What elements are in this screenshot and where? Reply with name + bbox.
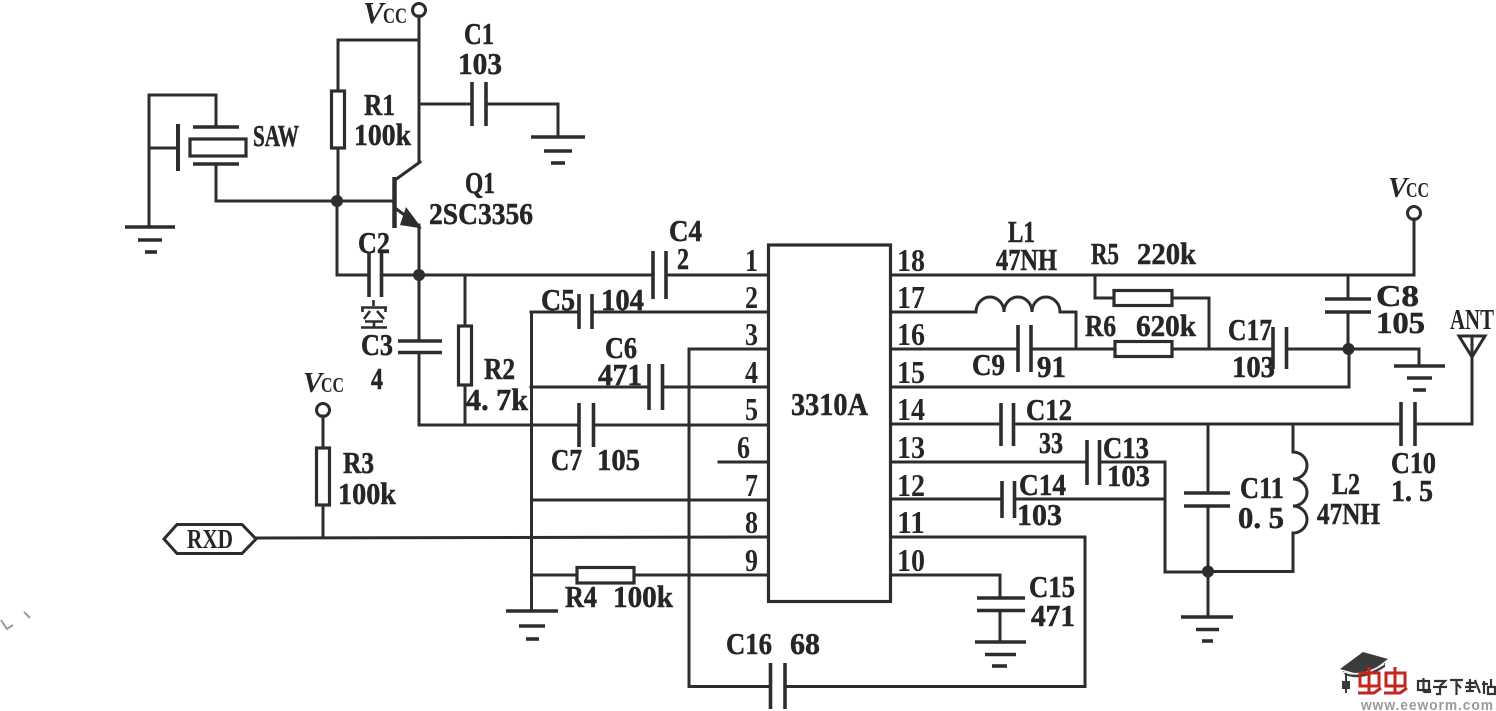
svg-text:100k: 100k (354, 117, 412, 152)
svg-text:103: 103 (1232, 349, 1275, 384)
wire pin2 row with capacitor C5 (531, 294, 768, 329)
svg-text:91: 91 (1037, 349, 1066, 384)
resistor R6 (1085, 308, 1197, 357)
resistor R5 (1091, 236, 1209, 349)
wire RXD to pin 8 (256, 537, 768, 538)
wire C1 to ground (486, 104, 558, 137)
svg-text:C7: C7 (551, 442, 582, 477)
resistor R1 (332, 87, 412, 152)
wire R6 to C17 (1172, 348, 1273, 351)
inductor L1 on pin17 row (891, 214, 1076, 312)
svg-text:47NH: 47NH (996, 242, 1057, 277)
wire bottom C16 row left (689, 685, 770, 688)
svg-text:R6: R6 (1085, 308, 1116, 343)
svg-text:C9: C9 (972, 347, 1005, 382)
wire pin5 row with capacitor C7 (419, 403, 768, 447)
wire pin13 row to C13 (891, 461, 1087, 464)
capacitor C5 labels (541, 282, 644, 317)
capacitor C16 (726, 626, 820, 709)
wire pin10 row to C15 (891, 575, 1000, 598)
wire base junction down to C2 (336, 201, 339, 275)
svg-text:4: 4 (745, 354, 758, 390)
wire VCC to R3 (322, 416, 325, 448)
wire VCC right down (1413, 219, 1416, 275)
wire R1 bottom to base wire (337, 148, 340, 201)
capacitor C10 (1391, 402, 1436, 508)
wire ground bus vertical (530, 312, 533, 611)
wire pin6 stub (719, 461, 768, 464)
resistor R3 (317, 445, 397, 511)
power VCC top terminal (363, 0, 426, 30)
wire pin3 vertical to C16 (689, 349, 768, 687)
wire emitter down (418, 225, 421, 275)
wire pin15 row (891, 349, 1349, 387)
svg-text:3: 3 (745, 316, 758, 352)
svg-text:7: 7 (745, 467, 758, 503)
svg-text:8: 8 (745, 504, 758, 540)
capacitor C2 (337, 225, 419, 297)
svg-text:C2: C2 (358, 225, 390, 260)
capacitor C4 (653, 213, 702, 299)
svg-text:105: 105 (597, 442, 640, 477)
svg-text:13: 13 (897, 429, 925, 465)
wire pin11 row to right edge box (891, 537, 1085, 687)
svg-text:17: 17 (897, 279, 925, 315)
capacitor C9 on pin16 row (891, 325, 1066, 384)
transistor Q1 (395, 162, 534, 231)
svg-text:C17: C17 (1228, 312, 1272, 347)
watermark text 虫虫 (drawn) (1358, 667, 1407, 693)
ground C1 (531, 137, 585, 163)
svg-text:CC: CC (321, 373, 344, 397)
inductor L2 (1293, 424, 1380, 572)
ground bottom right (1181, 617, 1233, 641)
connector RXD (164, 524, 256, 554)
svg-text:104: 104 (601, 282, 644, 317)
svg-text:100k: 100k (613, 579, 674, 614)
capacitor C6 labels (598, 330, 642, 392)
capacitor C13 (1087, 430, 1150, 493)
wire pin1 row (emitter to C4) (419, 274, 653, 277)
svg-text:2SC3356: 2SC3356 (429, 196, 533, 231)
svg-text:C16: C16 (726, 626, 772, 661)
wire L2 bottom to junction (1208, 570, 1293, 573)
svg-text:18: 18 (897, 242, 925, 278)
svg-text:103: 103 (458, 46, 502, 81)
svg-text:11: 11 (897, 504, 925, 540)
ground right (1394, 366, 1445, 390)
node junction C17/C8/pin15 (1343, 343, 1355, 355)
wire C1 branch (419, 103, 472, 106)
svg-text:15: 15 (897, 354, 925, 390)
wire pin14 row to C12 (891, 423, 1001, 426)
svg-text:3310A: 3310A (791, 386, 868, 422)
wire SAW bottom to base (216, 164, 394, 201)
svg-text:47NH: 47NH (1317, 496, 1380, 531)
svg-text:R2: R2 (484, 351, 515, 386)
svg-text:ANT: ANT (1450, 305, 1494, 336)
wire C9 to R6 (1031, 348, 1115, 351)
svg-text:16: 16 (897, 316, 925, 352)
power VCC mid terminal (303, 367, 344, 417)
wire C14 to C13 vertical (1015, 498, 1166, 501)
svg-text:4. 7k: 4. 7k (466, 382, 529, 417)
resistor R2 (459, 275, 529, 425)
svg-text:471: 471 (1031, 598, 1075, 633)
svg-text:C12: C12 (1026, 392, 1072, 427)
watermark logo graduation cap (1340, 652, 1388, 693)
capacitor C15 (977, 569, 1075, 642)
node base junction (331, 195, 343, 207)
power VCC right terminal (1388, 172, 1429, 220)
svg-text:2: 2 (677, 241, 689, 276)
capacitor C12 (1001, 392, 1072, 460)
svg-text:R4: R4 (565, 579, 597, 614)
svg-text:2: 2 (745, 279, 758, 315)
wire SAW top to left vertical (149, 95, 216, 227)
svg-text:9: 9 (745, 542, 758, 578)
wire pin18 row to VCC right (891, 274, 1414, 277)
capacitor C7 labels (551, 442, 640, 477)
ground C15 (975, 642, 1026, 666)
ground bus symbol (506, 611, 558, 639)
antenna ANT (1450, 305, 1494, 357)
ground SAW (125, 227, 175, 252)
svg-text:103: 103 (1017, 497, 1062, 532)
svg-text:100k: 100k (338, 476, 397, 511)
svg-text:220k: 220k (1137, 236, 1197, 271)
wire C4 to pin 1 (666, 274, 768, 277)
svg-text:4: 4 (371, 361, 383, 396)
svg-text:C3: C3 (361, 327, 393, 362)
svg-text:10: 10 (897, 542, 925, 578)
svg-text:R3: R3 (343, 445, 374, 480)
svg-text:620k: 620k (1136, 308, 1197, 343)
svg-text:RXD: RXD (187, 524, 233, 554)
capacitor C3 (361, 275, 442, 425)
wire junction to right ground (1348, 349, 1419, 366)
svg-text:SAW: SAW (253, 118, 299, 153)
IC U1 3310A (769, 245, 891, 602)
svg-text:Q1: Q1 (465, 165, 495, 200)
svg-text:0. 5: 0. 5 (1238, 500, 1284, 535)
stray mark left (1, 612, 30, 629)
svg-text:68: 68 (790, 626, 820, 661)
svg-text:1: 1 (745, 242, 758, 278)
capacitor C17 (1228, 312, 1349, 384)
wire SAW left electrode (149, 147, 178, 150)
wire VCC vertical to collector (418, 16, 421, 161)
svg-text:CC: CC (1406, 178, 1429, 202)
svg-text:1. 5: 1. 5 (1391, 473, 1433, 508)
resistor R4 on pin9 row (532, 568, 769, 615)
capacitor C8 (1325, 275, 1425, 349)
svg-text:5: 5 (745, 391, 758, 427)
wire C16 to pin11 box (785, 685, 1085, 688)
wire C12 to C10 (1014, 423, 1402, 426)
wire R3 bottom to RXD line (322, 505, 325, 537)
label 空 (drawn) (361, 300, 387, 328)
svg-text:105: 105 (1376, 305, 1425, 340)
wire L1 down to pin16 row (1075, 312, 1078, 349)
svg-text:C5: C5 (541, 282, 575, 317)
node bottom junction (1202, 566, 1214, 578)
svg-text:471: 471 (598, 357, 642, 392)
svg-text:33: 33 (1039, 425, 1063, 460)
svg-text:6: 6 (737, 429, 750, 465)
capacitor C1 (458, 16, 502, 126)
node emitter junction (413, 269, 425, 281)
svg-text:14: 14 (897, 391, 925, 427)
wire C10 to antenna (1415, 357, 1472, 424)
wire pin7 row (532, 499, 769, 502)
wire branch to R1 (338, 40, 419, 91)
capacitor C11 (1184, 424, 1284, 572)
wire pin12 row to C14 (891, 498, 1002, 501)
wire C13 right down to bottom junction (1100, 462, 1209, 572)
wire pin4 row with capacitor C6 (531, 364, 768, 410)
svg-text:R5: R5 (1091, 236, 1119, 271)
svg-text:CC: CC (383, 3, 407, 28)
SAW resonator (178, 118, 299, 171)
capacitor C14 (1002, 467, 1066, 532)
wire junction to ground (1207, 572, 1210, 618)
svg-text:www.eeworm.com: www.eeworm.com (1360, 697, 1494, 711)
watermark text 电子下载站 (drawn) (1418, 678, 1495, 695)
